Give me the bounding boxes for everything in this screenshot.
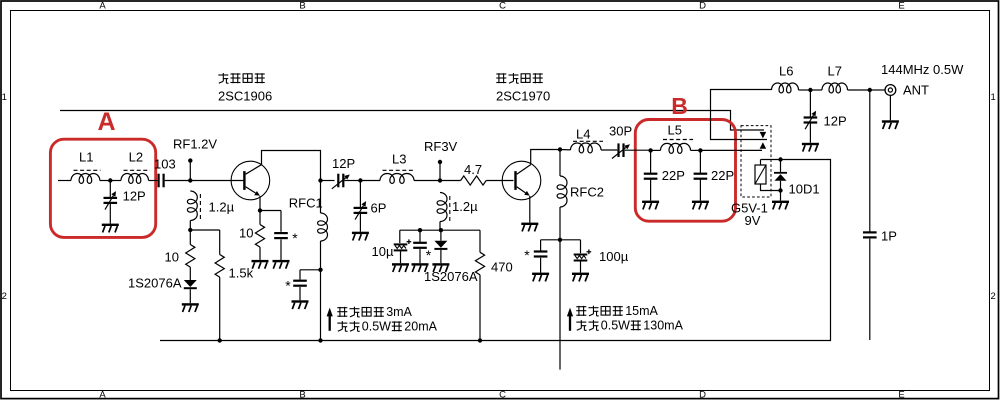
wire diode to ground (440, 250, 442, 263)
label 22P (662, 168, 685, 183)
wire R470 to rail (479, 275, 481, 341)
svg-text:L6: L6 (779, 64, 793, 79)
wire ANT node down (869, 90, 871, 232)
wire +9V rail (160, 160, 831, 341)
svg-text:130mA: 130mA (643, 319, 683, 333)
wire ANT shell to ground (889, 95, 891, 120)
wire Q2 collector (531, 150, 560, 165)
capacitor 1P (863, 231, 877, 238)
svg-text:30P: 30P (609, 124, 632, 139)
label RFC1 (289, 196, 323, 211)
label 終段増幅 (final amp stage) (496, 73, 542, 83)
ground (882, 120, 899, 129)
label B (671, 93, 688, 119)
capacitor 103 (158, 174, 165, 188)
inductor L2 (121, 174, 149, 184)
node junction bias (188, 228, 192, 232)
label 6P (371, 201, 387, 216)
capacitor * (RFC1 bypass) (293, 280, 307, 287)
wire cap to ground (299, 287, 301, 300)
capacitor 10µ (electrolytic) (394, 239, 412, 251)
ground (102, 224, 119, 233)
node junction Q2 collector (558, 147, 562, 151)
label 10µ (372, 244, 394, 259)
wire emitter to R10 (259, 211, 261, 225)
wire 30P to pi filter (625, 149, 651, 151)
label 103 (154, 157, 176, 172)
wire 1P down (869, 239, 871, 340)
label 12P (824, 114, 847, 129)
wire to C* (541, 240, 560, 251)
inductor L3 (380, 173, 414, 183)
label L2 (129, 150, 143, 165)
node junction coil+ (778, 157, 782, 161)
svg-text:1.2µ: 1.2µ (209, 200, 235, 215)
ground (Q2 emitter) (521, 223, 538, 232)
label * (426, 247, 432, 263)
ground (352, 232, 369, 241)
wire C* to ground (419, 249, 421, 263)
label 100µ (599, 249, 629, 264)
label RF1.2V (173, 137, 217, 152)
svg-text:20mA: 20mA (404, 320, 437, 334)
core (dashed) of L1 (74, 169, 101, 171)
svg-text:1S2076A: 1S2076A (424, 269, 478, 284)
relay coil G5V-1 (755, 165, 766, 184)
resistor 1.5k (215, 255, 224, 278)
label 12P (123, 189, 146, 204)
label 1S2076A (424, 269, 478, 284)
wire supply feed (crosses rail) (559, 240, 561, 370)
svg-text:103: 103 (154, 157, 176, 172)
wire junction to trimmer (109, 181, 111, 198)
svg-text:10: 10 (239, 226, 253, 241)
resistor 10 (186, 245, 195, 268)
wire pi-out to relay contact (700, 149, 762, 151)
label ANT (903, 83, 929, 98)
wire trimmer to ground (109, 204, 111, 224)
svg-text:L3: L3 (392, 152, 406, 167)
node junction RFC2 bottom (558, 238, 562, 242)
svg-text:1.2µ: 1.2µ (452, 199, 478, 214)
relay contact arrow (RX side) (760, 132, 767, 139)
wire to 100µ (560, 240, 581, 253)
diode 1S2076A (Q2 bias) (434, 241, 447, 250)
resistor 4.7 (461, 176, 487, 185)
inductor L6 (772, 83, 799, 93)
svg-text:RFC2: RFC2 (570, 185, 604, 200)
transistor Q2 2SC1970 (502, 161, 541, 200)
ground (532, 273, 549, 282)
svg-text:10µ: 10µ (372, 244, 394, 259)
svg-text:3mA: 3mA (386, 305, 412, 319)
label 10D1 (789, 182, 820, 197)
wire coil to bias rail (439, 222, 441, 231)
wire to 10µ (399, 230, 401, 243)
label G5V-1 (731, 201, 768, 216)
wire L4 to 30P (601, 149, 617, 151)
svg-text:2SC1906: 2SC1906 (218, 89, 272, 104)
svg-text:0.5W: 0.5W (362, 320, 391, 334)
wire C103-base node (165, 180, 191, 182)
ground (412, 263, 429, 272)
wire relay common from L6 (711, 90, 772, 140)
label 10 (239, 226, 253, 241)
inductor L4 (571, 143, 602, 153)
svg-text:C: C (499, 1, 506, 12)
label 無信号時3mA (337, 305, 412, 319)
wire to 22P-2 (699, 150, 701, 173)
junction on rail (318, 338, 322, 342)
wire C12P to junction (345, 180, 361, 182)
label 12P (332, 156, 355, 171)
annotation arrow (stage2 current) (567, 308, 573, 331)
label 出力0.5W時20mA (337, 320, 437, 334)
node junction Q1 base (188, 178, 192, 182)
resistor 470 (475, 252, 484, 275)
node junction L1/L2/C (108, 178, 112, 182)
wire 12P to ground (809, 123, 811, 142)
capacitor 100µ (electrolytic) (574, 250, 592, 262)
svg-text:22P: 22P (662, 168, 685, 183)
label 無信号時15mA (576, 304, 658, 318)
svg-text:2SC1970: 2SC1970 (496, 89, 550, 104)
node junction pi-in (648, 148, 652, 152)
svg-text:12P: 12P (824, 114, 847, 129)
label 144MHz 0.5W (881, 62, 964, 77)
label 1.2µ (452, 199, 478, 214)
wire to R470 (479, 230, 481, 252)
wire R to ground (259, 247, 261, 260)
node junction RFC1 bottom (318, 268, 322, 272)
node junction Q1 emitter (258, 208, 262, 212)
svg-text:470: 470 (491, 260, 513, 275)
svg-text:1: 1 (991, 92, 996, 103)
svg-text:9V: 9V (745, 213, 761, 228)
svg-text:1: 1 (2, 92, 7, 103)
svg-text:B: B (671, 93, 688, 119)
label 励振増幅 (driver amp stage) (218, 73, 264, 83)
inductor L7 (822, 83, 848, 93)
label L5 (668, 123, 682, 138)
label 出力0.5W時130mA (576, 319, 683, 333)
junction on rail (478, 338, 482, 342)
trimmer capacitor 12P (series) (332, 174, 350, 189)
svg-text:1P: 1P (881, 229, 897, 244)
svg-text:E: E (898, 1, 904, 12)
core (dashed) of L2 (124, 169, 151, 171)
ground (802, 143, 819, 152)
highlight box B (635, 120, 735, 222)
label 22P (711, 168, 734, 183)
wire RFC1 to rail (320, 270, 322, 341)
ground (772, 201, 789, 210)
wire L1-junction (100, 180, 111, 182)
svg-text:L4: L4 (576, 126, 590, 141)
label L3 (392, 152, 406, 167)
svg-text:22P: 22P (711, 168, 734, 183)
diode 1S2076A (184, 280, 197, 289)
wire diode-ground (189, 289, 191, 303)
ground (182, 303, 199, 312)
trimmer capacitor 6P (354, 201, 368, 220)
node junction Q2 base (438, 178, 442, 182)
svg-text:RFC1: RFC1 (289, 196, 323, 211)
svg-text:2: 2 (991, 291, 996, 302)
node junction (418, 228, 422, 232)
svg-text:B: B (299, 390, 305, 400)
diode 10D1 (774, 160, 787, 191)
wire R10-diode (189, 267, 191, 280)
svg-text:1S2076A: 1S2076A (128, 276, 182, 291)
ground (252, 260, 269, 269)
wire input (58, 180, 71, 182)
trimmer capacitor 30P (612, 143, 630, 158)
wire 100µ to ground (580, 261, 582, 272)
wire Q1 emitter (259, 196, 261, 211)
inductor 1.2µ (adjustable, Q2) (437, 193, 450, 223)
node junction coil- (778, 188, 782, 192)
ground (692, 201, 709, 210)
svg-text:E: E (898, 390, 904, 400)
wire collector to C12P (321, 180, 335, 182)
svg-text:2: 2 (2, 291, 7, 302)
wire collector to L4 (560, 149, 571, 151)
label 1.5k (229, 266, 254, 281)
junction on rail (218, 338, 222, 342)
wire to C* (419, 230, 421, 242)
wire RX line (60, 111, 764, 131)
node junction (439, 228, 443, 232)
label 470 (491, 260, 513, 275)
inductor 1.2µ (adjustable) (187, 191, 200, 221)
wire L7 to ANT node (848, 89, 870, 91)
svg-text:10D1: 10D1 (789, 182, 820, 197)
wire junction to L3 (360, 180, 380, 182)
highlight box A (50, 139, 155, 237)
choke RFC2 (557, 150, 567, 240)
transistor Q1 2SC1906 (231, 161, 270, 200)
svg-text:*: * (426, 247, 432, 263)
wire junction to R1.5k (190, 230, 219, 255)
wire junction-L7 (810, 89, 822, 91)
svg-text:10: 10 (165, 250, 179, 265)
svg-text:100µ: 100µ (599, 249, 629, 264)
svg-text:A: A (99, 390, 106, 400)
wire coil to junction (189, 221, 191, 231)
label 2SC1970 (496, 89, 550, 104)
wire emitter to C* (260, 211, 281, 232)
svg-text:B: B (299, 1, 305, 12)
wire Q2 emitter (529, 196, 531, 223)
wire 22P-2 to ground (699, 180, 701, 201)
svg-text:1.5k: 1.5k (229, 266, 254, 281)
svg-text:4.7: 4.7 (464, 162, 482, 177)
svg-text:*: * (292, 230, 298, 246)
capacitor * (bias) (413, 242, 427, 249)
svg-text:A: A (99, 1, 106, 12)
wire R1.5k to rail (219, 277, 221, 340)
wire to ANT connector (870, 89, 885, 91)
svg-text:12P: 12P (332, 156, 355, 171)
wire to ground (780, 191, 782, 201)
wire junction-L2 (110, 180, 121, 182)
trimmer capacitor 12P (104, 191, 118, 210)
wire 10µ to ground (400, 251, 402, 263)
label 1P (881, 229, 897, 244)
wire to 22P-1 (650, 150, 652, 173)
label 30P (609, 124, 632, 139)
svg-text:C: C (499, 390, 506, 400)
label 1.2µ (209, 200, 235, 215)
wire C to ground (280, 239, 282, 260)
wire L5 to pi-out (691, 149, 701, 151)
node junction 6P (358, 178, 362, 182)
label 2SC1906 (218, 89, 272, 104)
label A (97, 108, 115, 136)
trimmer capacitor 12P (antenna) (804, 111, 818, 130)
annotation arrow (stage1 current) (327, 308, 333, 331)
ground (392, 263, 409, 272)
svg-text:L7: L7 (828, 64, 842, 79)
svg-text:L1: L1 (79, 150, 93, 165)
inductor L1 (71, 174, 100, 184)
ground (642, 201, 659, 210)
capacitor 22P (left) (644, 173, 658, 180)
wire L3 to RF3V node (414, 180, 440, 182)
label 10 (165, 250, 179, 265)
wire Q1 collector (262, 151, 321, 181)
wire junction to R10 (189, 230, 191, 245)
label RF3V (424, 139, 458, 154)
svg-text:0.5W: 0.5W (601, 319, 630, 333)
svg-text:A: A (97, 108, 115, 136)
wire to bypass cap (300, 270, 321, 280)
svg-text:L5: L5 (668, 123, 682, 138)
wire relay coil top (760, 160, 762, 166)
label L1 (79, 150, 93, 165)
wire bias rail (400, 229, 480, 231)
label * (292, 230, 298, 246)
wire L6-junction (799, 89, 811, 91)
svg-text:12P: 12P (123, 189, 146, 204)
wire R4.7 to Q2 (486, 180, 513, 182)
relay enclosure (dashed) (741, 126, 771, 197)
svg-text:15mA: 15mA (625, 304, 658, 318)
ground (292, 300, 309, 309)
node junction L6/L7 (808, 88, 812, 92)
wire junction to 6P (359, 181, 361, 208)
ground (273, 260, 290, 269)
label 9V (745, 213, 761, 228)
ground (432, 263, 449, 272)
svg-text:144MHz 0.5W: 144MHz 0.5W (881, 62, 964, 77)
choke RFC1 (318, 181, 328, 270)
resistor 10 (emitter) (255, 225, 264, 248)
connector ANT (885, 85, 896, 96)
core (dashed) of L4 (573, 140, 603, 142)
svg-text:*: * (285, 277, 291, 293)
label RFC2 (570, 185, 604, 200)
wire 22P-1 to ground (650, 180, 652, 201)
svg-text:L2: L2 (129, 150, 143, 165)
svg-text:ANT: ANT (903, 83, 929, 98)
ground (572, 273, 589, 282)
label 4.7 (464, 162, 482, 177)
node junction ANT (868, 88, 872, 92)
core (dashed) of L5 (663, 139, 693, 141)
label * (524, 247, 530, 263)
svg-text:*: * (524, 247, 530, 263)
wire to diode (440, 230, 442, 241)
inductor L5 (651, 143, 691, 153)
svg-text:D: D (699, 1, 706, 12)
label 1S2076A (128, 276, 182, 291)
capacitor 22P (right) (694, 173, 708, 180)
capacitor * (emitter bypass) (274, 232, 288, 239)
relay contact arrow (TX side) (760, 142, 767, 149)
label * (285, 277, 291, 293)
label L7 (828, 64, 842, 79)
wire base node to Q1 (190, 180, 244, 182)
svg-text:RF1.2V: RF1.2V (173, 137, 217, 152)
wire 6P to ground (359, 214, 361, 232)
wire L2-C103 (149, 180, 158, 182)
node RF3V test point (438, 160, 442, 181)
svg-text:6P: 6P (371, 201, 387, 216)
wire C* to ground (540, 258, 542, 273)
label L4 (576, 126, 590, 141)
svg-text:D: D (699, 390, 706, 400)
wire junction to 12P (809, 90, 811, 117)
svg-text:RF3V: RF3V (424, 139, 458, 154)
label L6 (779, 64, 793, 79)
wire relay coil bottom (761, 184, 781, 191)
capacitor * (collector bypass) (534, 250, 548, 257)
node RF1.2V test point (188, 158, 192, 180)
core (dashed) of L3 (383, 169, 416, 171)
wire node to R4.7 (440, 180, 461, 182)
node junction pi-out (698, 148, 702, 152)
node junction Q1 collector (318, 178, 322, 182)
